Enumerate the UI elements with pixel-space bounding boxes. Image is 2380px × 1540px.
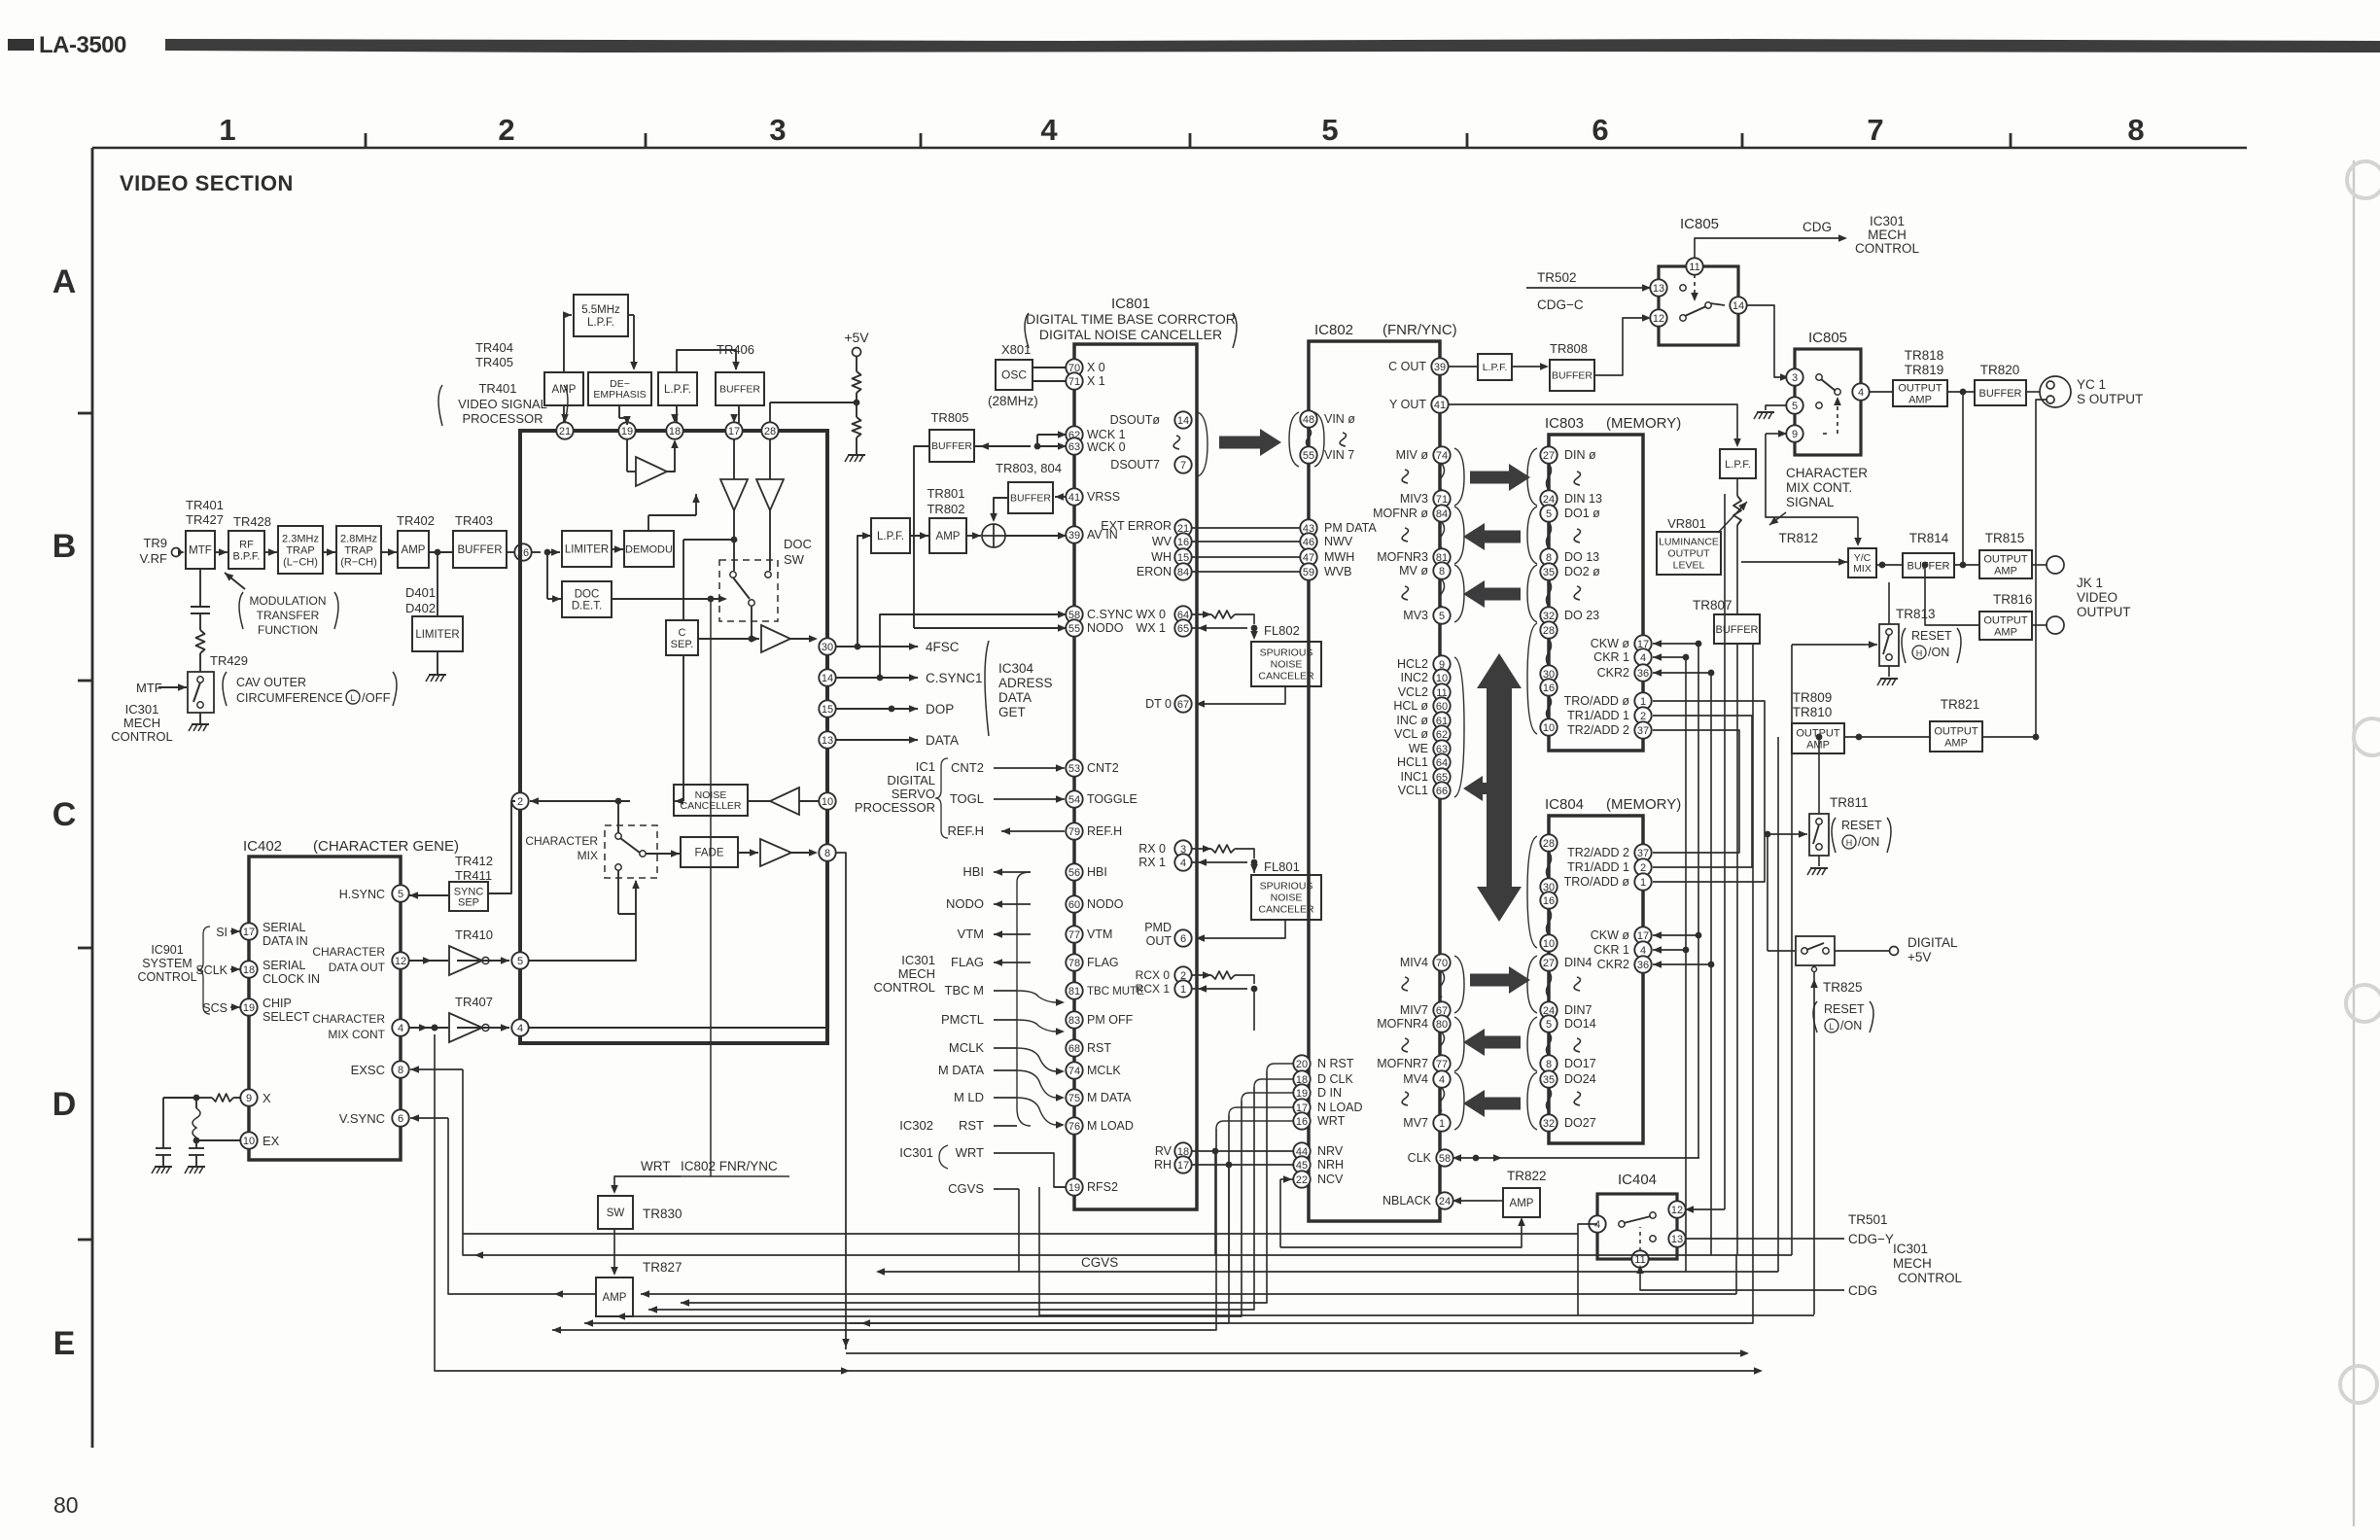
grid ruler top <box>92 147 2247 150</box>
svg-text:DO2 ø: DO2 ø <box>1564 565 1600 578</box>
svg-text:5: 5 <box>398 889 403 900</box>
svg-text:MIX: MIX <box>1853 563 1872 575</box>
svg-text:TR808: TR808 <box>1550 341 1588 356</box>
svg-text:IC301: IC301 <box>901 953 935 967</box>
svg-text:RESET: RESET <box>1824 1002 1865 1016</box>
IC802 right pins MIV4 group <box>1433 954 1450 970</box>
vertical risers right <box>1777 737 1779 1272</box>
wires CKW CKR IC803 <box>1653 643 1698 645</box>
svg-text:4: 4 <box>1640 945 1646 957</box>
block BUFFER TR803 <box>1008 482 1053 513</box>
svg-text:TR2/ADD 2: TR2/ADD 2 <box>1567 846 1629 859</box>
svg-text:77: 77 <box>1068 929 1080 941</box>
svg-text:SERIAL: SERIAL <box>262 921 306 934</box>
svg-text:4: 4 <box>1180 857 1186 869</box>
svg-text:TR813: TR813 <box>1896 607 1936 621</box>
node 26 <box>507 551 515 553</box>
svg-text:IC803: IC803 <box>1545 415 1584 432</box>
svg-text:80: 80 <box>1436 1019 1448 1031</box>
svg-text:VIN ø: VIN ø <box>1324 412 1355 426</box>
svg-text:28: 28 <box>1543 625 1555 637</box>
svg-text:DOC: DOC <box>784 537 812 551</box>
IC404 outline <box>1597 1194 1677 1259</box>
svg-text:D.E.T.: D.E.T. <box>572 601 602 612</box>
svg-text:NBLACK: NBLACK <box>1382 1194 1432 1207</box>
svg-text:2: 2 <box>498 113 514 147</box>
svg-text:CKR 1: CKR 1 <box>1593 650 1629 664</box>
svg-text:14: 14 <box>1732 300 1744 312</box>
svg-text:IC804: IC804 <box>1545 796 1584 813</box>
svg-text:36: 36 <box>1637 668 1649 680</box>
svg-text:68: 68 <box>1068 1043 1080 1055</box>
svg-text:IC301: IC301 <box>1870 214 1905 228</box>
svg-text:OUTPUT: OUTPUT <box>1934 725 1978 737</box>
svg-text:CHARACTER: CHARACTER <box>525 834 598 848</box>
svg-text:OUTPUT: OUTPUT <box>2077 605 2131 619</box>
svg-text:TR801: TR801 <box>927 486 964 501</box>
svg-text:LIMITER: LIMITER <box>565 544 609 556</box>
svg-text:RESET: RESET <box>1911 629 1952 643</box>
svg-text:60: 60 <box>1436 701 1448 713</box>
svg-text:WRT: WRT <box>641 1159 671 1173</box>
svg-text:TR809: TR809 <box>1793 690 1833 705</box>
block spurious noise canceler 2 <box>1251 875 1321 920</box>
svg-text:64: 64 <box>1436 757 1448 769</box>
svg-text:RV: RV <box>1155 1144 1172 1158</box>
svg-text:18: 18 <box>243 964 255 976</box>
svg-text:16: 16 <box>1177 537 1189 548</box>
svg-text:13: 13 <box>1671 1234 1683 1245</box>
svg-text:TR821: TR821 <box>1941 697 1980 712</box>
svg-text:14: 14 <box>822 673 833 684</box>
block spurious noise canceler 1 <box>1251 642 1321 686</box>
svg-text:C: C <box>679 627 686 639</box>
svg-text:D IN: D IN <box>1317 1086 1342 1100</box>
long wire y1410 <box>435 1034 1759 1371</box>
svg-text:AMP: AMP <box>1806 739 1830 751</box>
svg-text:MV4: MV4 <box>1403 1072 1428 1086</box>
svg-text:5: 5 <box>1792 401 1798 412</box>
svg-text:BUFFER: BUFFER <box>719 384 760 396</box>
wire buffer to mixer <box>994 498 1008 520</box>
svg-text:E: E <box>53 1325 76 1362</box>
svg-text:V.RF: V.RF <box>140 551 167 566</box>
svg-text:WX 0: WX 0 <box>1136 608 1166 621</box>
block LIMITER D401/D402 <box>412 616 463 651</box>
svg-text:DIN ø: DIN ø <box>1564 448 1596 462</box>
svg-text:7: 7 <box>1180 460 1186 472</box>
svg-text:VIDEO SECTION: VIDEO SECTION <box>120 171 294 195</box>
wires RV RH to NRV NRH <box>1191 1150 1294 1152</box>
S output connector <box>2026 391 2040 393</box>
block AMP TR404 <box>544 372 583 405</box>
svg-text:TR815: TR815 <box>1985 531 2025 545</box>
label modulation transfer function <box>239 592 243 629</box>
svg-text:AMP: AMP <box>603 1292 627 1304</box>
svg-text:NODO: NODO <box>1087 897 1124 911</box>
svg-text:N LOAD: N LOAD <box>1317 1101 1363 1114</box>
IC801 left pins <box>1066 359 1082 375</box>
svg-text:8: 8 <box>824 848 830 859</box>
svg-text:54: 54 <box>1068 794 1080 806</box>
svg-text:2.8MHz: 2.8MHz <box>340 533 377 544</box>
svg-text:DSOUTø: DSOUTø <box>1110 413 1161 427</box>
svg-text:83: 83 <box>1068 1015 1080 1027</box>
svg-text:IC301: IC301 <box>125 702 159 717</box>
svg-text:DO1 ø: DO1 ø <box>1564 507 1600 520</box>
svg-text:INC ø: INC ø <box>1396 714 1428 727</box>
RCX wires <box>1191 974 1211 976</box>
svg-text:TR502: TR502 <box>1537 270 1577 285</box>
svg-text:CANCELLER: CANCELLER <box>680 800 741 812</box>
wire S out lower pin <box>2036 400 2047 737</box>
block DOC D.E.T. <box>546 552 548 599</box>
svg-text:TR810: TR810 <box>1793 705 1833 719</box>
svg-text:CDG: CDG <box>1848 1283 1877 1298</box>
svg-text:TR803, 804: TR803, 804 <box>996 461 1062 475</box>
svg-text:CHIP: CHIP <box>262 997 292 1010</box>
svg-text:MCLK: MCLK <box>949 1040 984 1055</box>
svg-text:CONTROL: CONTROL <box>137 970 196 984</box>
svg-text:5: 5 <box>1546 508 1552 520</box>
IC804 left pins <box>1540 834 1557 851</box>
svg-text:4: 4 <box>1858 387 1864 399</box>
svg-text:27: 27 <box>1543 450 1555 462</box>
svg-text:8: 8 <box>398 1065 403 1076</box>
svg-text:19: 19 <box>1068 1182 1080 1194</box>
svg-text:VRSS: VRSS <box>1087 490 1120 504</box>
mixer circle <box>982 524 1005 547</box>
grid ruler left <box>91 148 94 1448</box>
filter FL801 <box>1191 848 1211 850</box>
wires blocks to pins <box>563 405 565 423</box>
crystal network <box>212 1094 233 1102</box>
block LIMITER main <box>562 531 612 567</box>
svg-text:RESET: RESET <box>1841 819 1882 832</box>
svg-text:35: 35 <box>1543 1074 1555 1086</box>
wires TRO ADD bus <box>1653 701 1765 882</box>
svg-text:MIV7: MIV7 <box>1400 1003 1428 1017</box>
svg-text:AMP: AMP <box>1944 737 1968 749</box>
svg-text:MV7: MV7 <box>1403 1116 1428 1130</box>
header rule bar <box>165 39 2380 52</box>
svg-text:TR814: TR814 <box>1909 531 1949 545</box>
IC802 left pins VIN <box>1300 410 1316 427</box>
svg-text:NWV: NWV <box>1324 535 1353 548</box>
wire to PMD OUT <box>1198 920 1285 938</box>
svg-text:NRV: NRV <box>1317 1144 1344 1158</box>
svg-text:MOFNR4: MOFNR4 <box>1377 1017 1428 1031</box>
svg-text:IC301: IC301 <box>899 1145 933 1160</box>
svg-text:8: 8 <box>1439 566 1445 577</box>
IC802 bottom left pins <box>1293 1055 1310 1071</box>
svg-text:TR827: TR827 <box>643 1260 682 1275</box>
svg-text:D CLK: D CLK <box>1317 1072 1353 1086</box>
svg-text:AMP: AMP <box>402 544 426 556</box>
svg-text:DO24: DO24 <box>1564 1072 1596 1086</box>
wire pin9 char mix cont <box>1775 433 1787 435</box>
svg-text:GET: GET <box>998 705 1026 719</box>
svg-text:39: 39 <box>1434 362 1446 373</box>
svg-text:9: 9 <box>1792 429 1798 440</box>
wire TR816 from junction <box>1922 562 1929 569</box>
svg-text:DO17: DO17 <box>1564 1057 1596 1070</box>
svg-text:/ON: /ON <box>1858 835 1879 849</box>
svg-text:1: 1 <box>1180 984 1186 996</box>
svg-text:N RST: N RST <box>1317 1057 1354 1070</box>
svg-text:C: C <box>52 796 77 833</box>
svg-text:2: 2 <box>1640 711 1646 722</box>
wires around C SEP and fade amp <box>683 539 734 541</box>
svg-text:59: 59 <box>1303 567 1314 578</box>
svg-text:RFS2: RFS2 <box>1087 1180 1118 1194</box>
svg-text:TR401: TR401 <box>478 381 516 396</box>
svg-text:LIMITER: LIMITER <box>415 629 459 641</box>
svg-text:21: 21 <box>559 426 571 437</box>
wires IC404 <box>1697 935 1699 1158</box>
svg-text:RH: RH <box>1154 1158 1172 1172</box>
svg-text:TR1/ADD 1: TR1/ADD 1 <box>1567 709 1629 722</box>
WRT jog to RFS2? vertical <box>1031 1153 1067 1187</box>
svg-text:/ON: /ON <box>1928 646 1949 659</box>
svg-text:CHARACTER: CHARACTER <box>1786 466 1868 480</box>
long wire y1392 <box>846 1352 1745 1354</box>
svg-text:CANCELER: CANCELER <box>1258 671 1314 682</box>
svg-text:BUFFER: BUFFER <box>1716 624 1759 636</box>
svg-text:MECH: MECH <box>123 716 160 730</box>
svg-text:RX 0: RX 0 <box>1138 842 1166 856</box>
svg-text:DATA: DATA <box>926 733 959 748</box>
svg-text:CGVS: CGVS <box>948 1181 984 1196</box>
svg-text:VTM: VTM <box>958 927 984 941</box>
ground pin5 <box>1766 405 1787 410</box>
svg-text:DIN4: DIN4 <box>1564 956 1592 969</box>
svg-text:AMP: AMP <box>1994 565 2017 577</box>
svg-text:X801: X801 <box>1001 342 1031 357</box>
arrow DSOUT to VIN <box>1219 429 1281 456</box>
wire IC404 pin4 <box>1578 1224 1597 1315</box>
svg-text:TR830: TR830 <box>643 1207 682 1221</box>
svg-text:1: 1 <box>1640 877 1646 889</box>
svg-text:EX: EX <box>262 1134 280 1148</box>
svg-text:FLAG: FLAG <box>951 955 984 969</box>
svg-text:DO 13: DO 13 <box>1564 550 1599 564</box>
svg-text:MIX CONT.: MIX CONT. <box>1786 480 1852 495</box>
svg-text:TR401: TR401 <box>186 498 224 512</box>
svg-text:OSC: OSC <box>1001 368 1027 382</box>
page header logo block <box>8 39 34 51</box>
svg-text:10: 10 <box>1543 938 1555 950</box>
block 2.3MHz trap <box>278 526 323 574</box>
svg-text:17: 17 <box>728 426 740 437</box>
svg-text:TR412: TR412 <box>455 854 493 868</box>
svg-text:D402: D402 <box>405 601 436 615</box>
svg-text:17: 17 <box>1177 1160 1189 1172</box>
block DE-EMPHASIS <box>588 372 651 405</box>
svg-text:VCL1: VCL1 <box>1398 784 1428 797</box>
svg-text:MIV4: MIV4 <box>1400 956 1428 969</box>
svg-text:12: 12 <box>1653 313 1664 325</box>
svg-text:TR403: TR403 <box>455 513 493 528</box>
svg-text:53: 53 <box>1068 763 1080 775</box>
svg-text:16: 16 <box>1296 1116 1308 1128</box>
svg-text:7: 7 <box>1867 113 1883 147</box>
block luminance output level <box>1657 532 1721 575</box>
svg-text:(FNR/YNC): (FNR/YNC) <box>1382 322 1457 338</box>
svg-text:CNT2: CNT2 <box>951 760 984 775</box>
svg-text:32: 32 <box>1543 611 1555 622</box>
svg-text:MOFNR ø: MOFNR ø <box>1373 507 1428 520</box>
amp triangle inside processor <box>626 438 628 472</box>
fat arrows IC802-IC804 <box>1470 966 1530 994</box>
svg-text:NOISE: NOISE <box>1271 659 1303 671</box>
svg-text:FADE: FADE <box>694 848 723 859</box>
svg-text:CKR2: CKR2 <box>1597 666 1629 680</box>
svg-text:VIDEO: VIDEO <box>2077 590 2117 605</box>
block FADE <box>646 853 680 855</box>
wires IC801-IC802 error bus <box>1191 527 1301 529</box>
IC802 right CLK NBLACK <box>1436 1149 1452 1166</box>
svg-text:CHARACTER: CHARACTER <box>312 945 385 959</box>
svg-text:24: 24 <box>1439 1196 1451 1207</box>
svg-text:TRO/ADD ø: TRO/ADD ø <box>1564 694 1630 708</box>
svg-text:AMP: AMP <box>1908 394 1932 405</box>
svg-text:CONTROL: CONTROL <box>873 980 935 995</box>
svg-text:36: 36 <box>1637 960 1649 971</box>
crossing jogs to pins <box>1017 991 1057 1002</box>
svg-text:AMP: AMP <box>1510 1198 1534 1209</box>
svg-text:IC802 FNR/YNC: IC802 FNR/YNC <box>681 1159 778 1173</box>
svg-text:84: 84 <box>1177 567 1189 578</box>
block 5.5MHz LPF <box>574 295 628 336</box>
svg-text:BUFFER: BUFFER <box>1010 493 1051 505</box>
svg-text:MECH: MECH <box>898 966 935 981</box>
svg-text:47: 47 <box>1303 552 1314 564</box>
wire DEMODU up <box>647 515 649 531</box>
svg-text:IC802: IC802 <box>1314 322 1353 338</box>
svg-text:TR501: TR501 <box>1848 1212 1888 1227</box>
svg-text:TR820: TR820 <box>1980 363 2020 377</box>
down triangles DOC <box>733 438 735 479</box>
svg-text:DATA: DATA <box>998 690 1032 705</box>
svg-text:RCX 0: RCX 0 <box>1136 968 1171 982</box>
svg-text:SI: SI <box>216 926 227 939</box>
svg-text:18: 18 <box>669 426 681 437</box>
svg-text:SEP.: SEP. <box>671 639 694 650</box>
svg-text:C OUT: C OUT <box>1388 360 1426 373</box>
svg-text:TR802: TR802 <box>927 502 964 516</box>
svg-text:C.SYNC: C.SYNC <box>1087 608 1133 621</box>
svg-text:TR816: TR816 <box>1993 592 2033 607</box>
svg-text:22: 22 <box>1296 1174 1308 1186</box>
risers from CKR bus down <box>1668 950 1686 1128</box>
svg-text:DIGITAL: DIGITAL <box>887 773 935 787</box>
svg-text:SW: SW <box>607 1207 625 1219</box>
wires OSC to pins <box>1032 367 1067 368</box>
IC402 outline <box>249 857 401 1160</box>
svg-text:SERVO: SERVO <box>892 787 935 801</box>
svg-text:H: H <box>1916 648 1923 658</box>
svg-text:71: 71 <box>1068 376 1080 388</box>
svg-text:IC901: IC901 <box>151 943 183 957</box>
svg-text:MIX: MIX <box>577 849 598 862</box>
svg-text:6: 6 <box>1592 113 1608 147</box>
svg-text:41: 41 <box>1434 400 1446 411</box>
svg-text:SELECT: SELECT <box>262 1010 310 1024</box>
svg-text:TR404: TR404 <box>475 340 513 355</box>
svg-text:L.P.F.: L.P.F. <box>587 317 614 329</box>
svg-text:PM OFF: PM OFF <box>1087 1013 1134 1027</box>
svg-text:YC 1: YC 1 <box>2077 377 2106 392</box>
svg-text:MECH: MECH <box>1893 1256 1932 1271</box>
svg-text:CDG: CDG <box>1802 220 1832 234</box>
node 10 <box>819 792 835 809</box>
svg-text:MV ø: MV ø <box>1399 564 1428 577</box>
svg-text:TR428: TR428 <box>233 514 271 529</box>
wire VSYNC run <box>448 1118 596 1294</box>
svg-text:TR812: TR812 <box>1778 531 1818 545</box>
svg-text:INC2: INC2 <box>1401 671 1429 684</box>
wire AMP TR827 feed <box>641 1293 1736 1295</box>
svg-text:TBC M: TBC M <box>945 983 984 997</box>
svg-text:CONTROL: CONTROL <box>1855 241 1919 256</box>
long wire y1364 <box>850 644 1753 1323</box>
svg-text:46: 46 <box>1303 537 1314 548</box>
svg-text:TR9: TR9 <box>143 536 167 550</box>
svg-text:10: 10 <box>1436 673 1448 684</box>
svg-text:WCK 0: WCK 0 <box>1087 440 1126 454</box>
svg-text:L.P.F.: L.P.F. <box>1483 362 1508 373</box>
label CAV outer circumference <box>223 672 227 706</box>
wire AMP junction down to limiter D401 D402 <box>437 552 438 615</box>
svg-text:WCK 1: WCK 1 <box>1087 428 1126 441</box>
svg-text:REF.H: REF.H <box>1087 824 1122 838</box>
svg-text:(CHARACTER GENE): (CHARACTER GENE) <box>313 838 459 855</box>
svg-text:63: 63 <box>1068 441 1080 453</box>
block BUFFER TR805 <box>929 430 974 462</box>
svg-text:VCL2: VCL2 <box>1398 685 1428 699</box>
svg-text:RX 1: RX 1 <box>1138 856 1166 869</box>
svg-text:WE: WE <box>1409 742 1428 755</box>
svg-text:30: 30 <box>822 642 833 653</box>
svg-text:SCLK: SCLK <box>195 963 227 977</box>
svg-text:IC301: IC301 <box>1893 1242 1928 1256</box>
svg-text:M DATA: M DATA <box>1087 1091 1132 1104</box>
svg-text:CIRCUMFERENCE: CIRCUMFERENCE <box>236 691 343 705</box>
wire pin14 to IC805-2 pin3 <box>1746 305 1787 377</box>
svg-text:16: 16 <box>1543 895 1555 907</box>
svg-text:13: 13 <box>822 735 833 747</box>
pins IC805-1 <box>1686 258 1702 274</box>
IC805 switch 2 outline <box>1795 349 1861 455</box>
wire LPF-BUFFER bridge <box>677 350 736 372</box>
dashed DOC SW box <box>719 560 778 621</box>
CDG line to pin11 <box>1640 1267 1844 1290</box>
svg-text:TR411: TR411 <box>455 868 492 883</box>
node 14 <box>819 669 835 685</box>
wires WCK <box>974 445 1031 447</box>
svg-text:MIX CONT: MIX CONT <box>328 1028 385 1041</box>
svg-text:15: 15 <box>1177 552 1189 564</box>
svg-text:PMD: PMD <box>1144 921 1172 934</box>
svg-text:81: 81 <box>1068 986 1080 997</box>
svg-text:10: 10 <box>243 1136 255 1147</box>
wire CLK <box>1452 1157 1540 1159</box>
svg-text:2.3MHz: 2.3MHz <box>282 533 319 544</box>
svg-text:HBI: HBI <box>962 864 984 879</box>
svg-text:TRAP: TRAP <box>286 544 314 556</box>
svg-text:SYSTEM: SYSTEM <box>142 957 192 970</box>
